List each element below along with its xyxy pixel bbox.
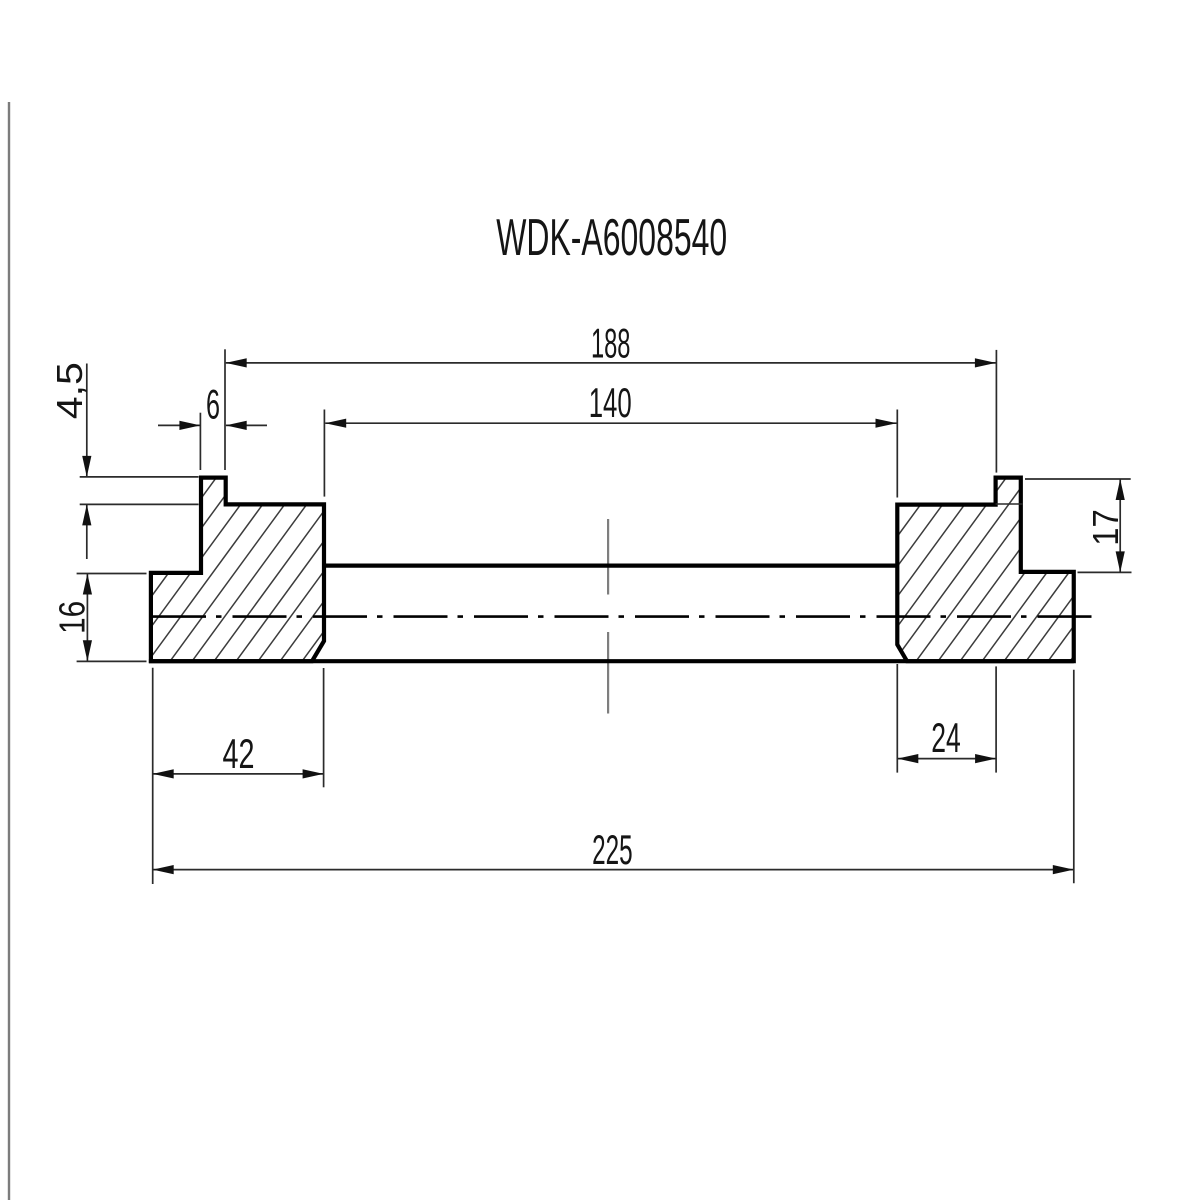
left block outline	[151, 478, 324, 662]
hatching right block	[690, 430, 1200, 700]
svg-text:4,5: 4,5	[49, 362, 90, 419]
dimension 225	[1073, 670, 1075, 884]
svg-text:24: 24	[931, 714, 961, 761]
svg-text:42: 42	[223, 730, 255, 777]
svg-text:16: 16	[52, 601, 93, 634]
dimension 42	[152, 668, 154, 884]
dimension 17	[1025, 478, 1131, 480]
svg-text:140: 140	[589, 379, 632, 426]
page border line	[8, 102, 10, 1200]
dimension 4.5	[80, 476, 199, 478]
horizontal center line	[152, 615, 1101, 618]
dimension 6	[199, 413, 201, 470]
svg-text:17: 17	[1085, 509, 1126, 546]
svg-text:188: 188	[591, 319, 631, 366]
dimension 140	[323, 410, 325, 497]
bottom edge	[149, 659, 1074, 663]
dimension 16	[77, 573, 147, 575]
thin line through right tab	[996, 503, 1023, 505]
svg-text:6: 6	[206, 381, 220, 428]
dimension 24	[896, 664, 898, 773]
hatching left block	[0, 430, 537, 700]
vertical center line	[607, 519, 609, 595]
dimension 188	[224, 349, 226, 470]
svg-text:WDK-A6008540: WDK-A6008540	[496, 208, 727, 266]
right block outline	[897, 478, 1073, 662]
web top edge	[324, 563, 897, 567]
svg-text:225: 225	[592, 826, 633, 873]
